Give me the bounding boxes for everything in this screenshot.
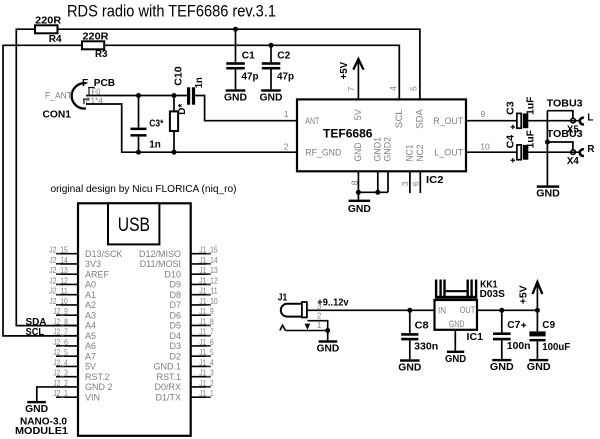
- svg-text:1: 1: [284, 109, 289, 119]
- svg-text:J2_3: J2_3: [53, 368, 68, 378]
- ground (J1): [317, 340, 340, 354]
- connector USB: [108, 203, 159, 244]
- svg-text:TOBU3: TOBU3: [547, 99, 583, 110]
- wire R_OUT to C3: [466, 120, 517, 122]
- capacitor C10: [173, 66, 204, 105]
- svg-text:GND: GND: [527, 362, 551, 373]
- title text: [67, 3, 276, 21]
- pin number 8: [350, 180, 360, 185]
- capacitor C2: [262, 43, 294, 90]
- svg-text:1: 1: [317, 321, 322, 330]
- svg-text:GND: GND: [25, 404, 48, 415]
- svg-text:SCL: SCL: [26, 327, 45, 338]
- label MODULE1: [15, 416, 68, 437]
- svg-text:47p: 47p: [242, 72, 259, 83]
- svg-text:A3: A3: [85, 310, 96, 320]
- svg-text:100n: 100n: [507, 341, 531, 352]
- capacitor C3*: [131, 93, 164, 155]
- svg-text:GND: GND: [224, 93, 247, 104]
- pin NC2 stub: [419, 171, 421, 193]
- pin number 3: [400, 181, 410, 186]
- svg-text:5V: 5V: [85, 362, 96, 372]
- svg-text:A2: A2: [85, 300, 96, 310]
- svg-text:1uF: 1uF: [525, 130, 536, 148]
- svg-text:J2_10: J2_10: [49, 296, 68, 306]
- svg-text:D7: D7: [169, 300, 181, 310]
- svg-text:J1_2: J1_2: [199, 378, 214, 388]
- svg-text:9: 9: [481, 109, 486, 119]
- svg-text:1n: 1n: [194, 77, 205, 88]
- svg-text:D4: D4: [169, 331, 181, 341]
- svg-text:L_OUT: L_OUT: [434, 148, 463, 159]
- svg-text:R4: R4: [49, 34, 62, 45]
- svg-text:L: L: [587, 113, 593, 124]
- connector J1 pins (right header): [139, 245, 218, 403]
- ground (output jacks): [536, 185, 560, 199]
- svg-text:J1_11: J1_11: [199, 286, 218, 296]
- svg-text:D6: D6: [169, 310, 181, 320]
- ground (under C1): [224, 89, 247, 103]
- note text: [51, 183, 237, 195]
- wire J1 to IC1 IN: [307, 308, 435, 313]
- svg-text:X4: X4: [567, 156, 579, 167]
- svg-text:GND2: GND2: [383, 137, 394, 162]
- svg-text:4: 4: [388, 86, 398, 91]
- node SDA label: [26, 317, 47, 328]
- svg-text:1n: 1n: [149, 140, 161, 151]
- svg-text:C3*: C3*: [149, 119, 163, 130]
- ground (IC1): [445, 351, 466, 365]
- svg-text:C3: C3: [505, 101, 516, 115]
- capacitor C8: [401, 310, 438, 359]
- svg-text:J1_10: J1_10: [199, 296, 218, 306]
- svg-text:GND 2: GND 2: [85, 382, 113, 392]
- connector CON1 (F antenna): [43, 78, 116, 121]
- pin number 9: [481, 109, 486, 119]
- svg-text:5V: 5V: [353, 109, 364, 121]
- svg-text:J1: J1: [278, 292, 288, 303]
- svg-text:J1_6: J1_6: [199, 337, 214, 347]
- svg-text:D5: D5: [169, 321, 181, 331]
- svg-text:AREF: AREF: [85, 269, 110, 279]
- svg-text:RDS radio with TEF6686 rev.3.1: RDS radio with TEF6686 rev.3.1: [67, 3, 276, 21]
- capacitor C7: [493, 310, 531, 359]
- svg-text:GND: GND: [536, 189, 560, 200]
- node SCL label: [26, 327, 45, 338]
- svg-text:D11/MOSI: D11/MOSI: [140, 259, 181, 269]
- svg-text:NC2: NC2: [415, 145, 426, 162]
- svg-text:C1: C1: [242, 51, 255, 62]
- svg-text:A4: A4: [85, 321, 96, 331]
- svg-text:5: 5: [408, 86, 418, 91]
- svg-text:GND.1: GND.1: [153, 362, 181, 372]
- pin NC1 stub: [409, 171, 411, 193]
- label IC2: [426, 175, 444, 186]
- connector J2 pins (left header): [49, 245, 122, 403]
- wire L_OUT to C4: [466, 151, 517, 153]
- svg-text:SDA: SDA: [415, 109, 426, 129]
- svg-text:GND: GND: [353, 142, 364, 161]
- svg-text:GND: GND: [317, 344, 340, 355]
- svg-text:J2_7: J2_7: [53, 327, 68, 337]
- svg-text:D9: D9: [169, 280, 181, 290]
- svg-text:J2_8: J2_8: [53, 316, 68, 326]
- svg-text:R3: R3: [95, 49, 108, 60]
- wire net SCL (R3 rail to IC2 pin 4 and to NANO A5): [3, 45, 399, 336]
- svg-text:A1: A1: [85, 290, 96, 300]
- wire output jack ground rail: [545, 111, 550, 186]
- svg-text:D12/MISO: D12/MISO: [139, 249, 181, 259]
- svg-text:D3: D3: [169, 341, 181, 351]
- power +5V arrow (IC2): [339, 59, 364, 99]
- wire F1*4 pin to IC2 pin 2 (RF_GND): [86, 104, 297, 152]
- regulator IC1 (D03S): [435, 300, 478, 351]
- svg-text:RF_GND: RF_GND: [305, 148, 341, 159]
- wire F0 pin to C10: [86, 95, 187, 97]
- svg-text:2: 2: [317, 311, 322, 320]
- wire C4 to jack X4: [528, 151, 578, 153]
- svg-text:J2_9: J2_9: [53, 306, 68, 316]
- svg-text:A0: A0: [85, 280, 96, 290]
- svg-text:MODULE1: MODULE1: [15, 426, 68, 437]
- svg-text:F_ANT: F_ANT: [45, 91, 72, 102]
- svg-text:J1_15: J1_15: [199, 245, 218, 255]
- svg-text:GND: GND: [348, 204, 371, 215]
- ground (NANO): [25, 401, 48, 415]
- svg-text:RST.1: RST.1: [156, 372, 181, 382]
- module NANO-3.0 body: [78, 203, 191, 435]
- svg-text:330n: 330n: [414, 341, 438, 352]
- pin number 2: [284, 141, 289, 151]
- svg-text:D13/SCK: D13/SCK: [85, 249, 123, 259]
- svg-text:+5V: +5V: [339, 62, 350, 80]
- svg-text:J1_3: J1_3: [199, 368, 214, 378]
- svg-text:TEF6686: TEF6686: [323, 126, 373, 140]
- svg-text:R_OUT: R_OUT: [433, 116, 463, 127]
- heatsink KK1 D03S: [435, 280, 505, 300]
- svg-text:J2_13: J2_13: [49, 265, 68, 275]
- ground (under C9): [527, 359, 551, 373]
- wire IC1 OUT to +5V: [477, 308, 540, 313]
- svg-text:J2_15: J2_15: [49, 245, 68, 255]
- svg-text:3: 3: [400, 181, 410, 186]
- capacitor C1: [226, 27, 258, 90]
- svg-text:D0/RX: D0/RX: [154, 382, 181, 392]
- ground (under C7): [490, 359, 514, 373]
- svg-text:J2_6: J2_6: [53, 337, 68, 347]
- svg-text:J2_5: J2_5: [53, 347, 68, 357]
- svg-text:6: 6: [410, 181, 420, 186]
- connector J1 (DC power jack): [278, 292, 330, 340]
- ground (under C8): [398, 359, 421, 373]
- svg-text:GND: GND: [449, 319, 465, 330]
- svg-text:A7: A7: [85, 351, 96, 361]
- svg-text:CON1: CON1: [43, 110, 72, 121]
- power +5V arrow (supply): [518, 282, 542, 310]
- svg-text:C10: C10: [173, 66, 184, 86]
- svg-text:D8: D8: [169, 290, 181, 300]
- svg-text:TOBU3: TOBU3: [547, 129, 583, 140]
- wire IC2 GND/GND1/GND2 pins to ground: [356, 171, 388, 199]
- svg-text:+9..12v: +9..12v: [317, 298, 349, 309]
- svg-text:OUT: OUT: [460, 305, 476, 316]
- svg-text:NC1: NC1: [405, 145, 416, 162]
- svg-text:J1_9: J1_9: [199, 306, 214, 316]
- svg-text:IC1: IC1: [467, 332, 484, 343]
- svg-text:220R: 220R: [35, 16, 62, 27]
- svg-text:C8: C8: [415, 320, 429, 331]
- svg-text:J1_13: J1_13: [199, 265, 218, 275]
- svg-text:GND: GND: [445, 354, 466, 365]
- resistor R4: [35, 16, 62, 46]
- svg-text:IC2: IC2: [426, 175, 444, 186]
- pin number 1: [284, 109, 289, 119]
- svg-text:IN: IN: [438, 306, 446, 317]
- svg-text:C9: C9: [542, 320, 555, 331]
- svg-text:2: 2: [284, 141, 289, 151]
- svg-text:J1_12: J1_12: [199, 275, 218, 285]
- svg-text:original design by Nicu FLORIC: original design by Nicu FLORICA (niq_ro): [51, 183, 237, 195]
- svg-text:+5V: +5V: [518, 285, 529, 304]
- svg-text:D03S: D03S: [480, 289, 505, 300]
- svg-text:VIN: VIN: [85, 392, 100, 402]
- wire net SDA (R4 rail to IC2 pin 5 and to NANO A4): [16, 29, 420, 325]
- svg-text:7: 7: [346, 86, 356, 91]
- svg-text:J2_11: J2_11: [49, 286, 68, 296]
- svg-text:SCL: SCL: [394, 109, 405, 128]
- svg-text:A6: A6: [85, 341, 96, 351]
- svg-text:J1_4: J1_4: [199, 357, 214, 367]
- svg-text:1uF: 1uF: [525, 97, 536, 115]
- svg-text:D10: D10: [164, 269, 181, 279]
- svg-text:J1_1: J1_1: [199, 388, 214, 398]
- capacitor C3 (output): [505, 97, 536, 130]
- svg-text:10: 10: [480, 141, 490, 151]
- svg-text:220R: 220R: [83, 32, 110, 43]
- svg-text:D1/TX: D1/TX: [155, 392, 181, 402]
- svg-text:GND: GND: [260, 93, 283, 104]
- pin number 10: [480, 141, 490, 151]
- svg-text:J2_1: J2_1: [53, 388, 68, 398]
- svg-text:A5: A5: [85, 331, 96, 341]
- pin number 5: [408, 86, 418, 91]
- connector X5 (TOBU3 jack L): [547, 99, 594, 136]
- svg-text:J1_7: J1_7: [199, 327, 214, 337]
- ground (under C2): [260, 89, 283, 103]
- svg-text:J2_4: J2_4: [53, 357, 68, 367]
- svg-text:USB: USB: [118, 215, 150, 236]
- wire C3 to jack X5: [528, 120, 578, 122]
- wire C10 to IC2 pin 1 (ANT): [195, 96, 297, 121]
- svg-text:J2_14: J2_14: [49, 255, 68, 265]
- svg-text:R: R: [587, 144, 595, 155]
- wire NANO GND2 to ground: [37, 387, 78, 401]
- svg-text:C4: C4: [505, 134, 516, 148]
- svg-text:8: 8: [350, 180, 360, 185]
- connector X4 (TOBU3 jack R): [547, 129, 596, 167]
- svg-text:C7: C7: [507, 320, 520, 331]
- component D*: [170, 93, 188, 155]
- capacitor C4 (output): [505, 130, 536, 162]
- svg-text:GND: GND: [398, 363, 421, 374]
- pin number 7: [346, 86, 356, 91]
- svg-text:GND: GND: [490, 362, 514, 373]
- svg-text:47p: 47p: [277, 72, 294, 83]
- svg-text:D2: D2: [169, 351, 181, 361]
- pin number 4: [388, 86, 398, 91]
- svg-text:J1_14: J1_14: [199, 255, 218, 265]
- svg-text:100uF: 100uF: [542, 342, 570, 353]
- svg-text:3V3: 3V3: [85, 259, 101, 269]
- svg-text:D*: D*: [177, 104, 188, 115]
- ground (IC2): [348, 200, 371, 216]
- capacitor C9: [521, 310, 570, 359]
- svg-text:RST.2: RST.2: [85, 372, 110, 382]
- svg-text:C2: C2: [277, 51, 290, 62]
- svg-text:J2_12: J2_12: [49, 275, 68, 285]
- pin number 6: [410, 181, 420, 186]
- op-amp U1 / radio IC2 TEF6686: [297, 99, 466, 171]
- svg-text:J1_5: J1_5: [199, 347, 214, 357]
- svg-text:J1_8: J1_8: [199, 316, 214, 326]
- resistor R3: [82, 32, 109, 60]
- label +9..12v: [317, 298, 349, 309]
- svg-text:ANT: ANT: [305, 116, 319, 127]
- label IC1: [467, 332, 484, 343]
